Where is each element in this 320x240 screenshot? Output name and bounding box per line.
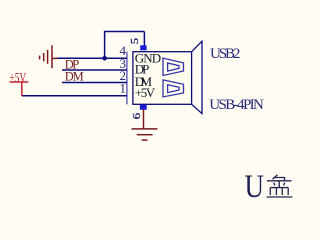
- svg-text:USB-4PIN: USB-4PIN: [209, 97, 264, 113]
- svg-text:USB2: USB2: [210, 46, 240, 62]
- svg-text:+5V: +5V: [135, 85, 156, 100]
- svg-text:5: 5: [129, 37, 141, 44]
- svg-text:+5V: +5V: [9, 71, 26, 86]
- svg-text:DM: DM: [65, 69, 84, 83]
- svg-text:6: 6: [131, 112, 143, 119]
- svg-text:U: U: [245, 169, 265, 205]
- svg-text:1: 1: [120, 81, 127, 96]
